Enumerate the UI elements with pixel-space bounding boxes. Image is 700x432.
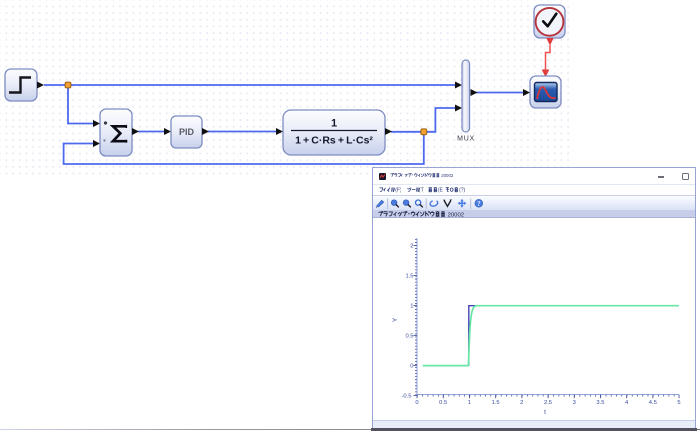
wire: summer output to PID input	[138, 131, 165, 133]
icon: zoom out	[403, 199, 410, 206]
menu bar	[373, 185, 695, 196]
svg-text:3.5: 3.5	[596, 400, 604, 406]
red event wire clock to scope	[546, 45, 551, 70]
step source block STEP_FUNCTION	[5, 69, 37, 101]
maximize	[682, 173, 689, 180]
svg-text:Y: Y	[392, 317, 399, 322]
x axis	[417, 394, 679, 396]
svg-text:0: 0	[410, 364, 413, 370]
svg-text:3: 3	[573, 400, 576, 406]
menu fairu(F)	[379, 187, 401, 195]
bottom edge lines	[0, 429, 700, 430]
svg-text:1: 1	[468, 400, 471, 406]
summer block SUMMATION	[93, 120, 100, 127]
green response curve	[423, 306, 679, 366]
icon: edit/pen	[376, 200, 384, 207]
svg-text:2.5: 2.5	[544, 400, 552, 406]
svg-text:1.5: 1.5	[492, 400, 500, 406]
svg-text:5: 5	[677, 400, 680, 406]
scilab graphic window icon	[379, 173, 386, 180]
junction A	[65, 82, 71, 88]
title bar	[373, 168, 695, 185]
clock output port arrow (red, down)	[546, 38, 553, 46]
scope block CSCOPE	[523, 89, 530, 96]
title text: guraffikku window bangou 20002	[390, 173, 456, 180]
MUX block	[455, 82, 462, 89]
svg-text:PID: PID	[179, 127, 195, 137]
icon: zoom in	[391, 199, 398, 206]
svg-text:-0.5: -0.5	[402, 394, 412, 400]
svg-text:1.5: 1.5	[405, 274, 413, 280]
minimize	[658, 176, 664, 178]
svg-text:2: 2	[520, 400, 523, 406]
wire: feedback junction B to summer input 2	[64, 132, 424, 164]
sub header bar	[373, 210, 695, 219]
svg-text:4: 4	[625, 400, 629, 406]
PID block	[164, 128, 171, 135]
svg-text:2: 2	[410, 244, 413, 250]
wire: plant output to junction B	[391, 131, 424, 133]
svg-text:1: 1	[410, 304, 413, 310]
graphic window	[372, 167, 696, 428]
icon: 2d/3d V tool	[443, 199, 451, 206]
clock block SampleCLK	[534, 5, 565, 38]
toolbar	[373, 196, 695, 210]
axis tick labels	[402, 244, 414, 400]
svg-text:0.5: 0.5	[439, 400, 447, 406]
svg-text:t: t	[544, 409, 546, 416]
xcos canvas dotted background	[0, 0, 572, 176]
svg-text:MUX: MUX	[457, 136, 475, 143]
svg-text:1 + C·Rs + L·Cs²: 1 + C·Rs + L·Cs²	[295, 135, 373, 147]
menu sonota(?)	[445, 187, 467, 195]
icon: pan cross	[458, 198, 467, 207]
wire: step output to junction A and on to MUX input 1	[44, 84, 455, 86]
block diagram	[0, 0, 700, 200]
toolbar separators	[388, 198, 471, 209]
junction B	[421, 129, 427, 135]
icon: help	[475, 199, 483, 208]
svg-text:0: 0	[415, 400, 418, 406]
wire: MUX output to scope input	[476, 92, 524, 94]
icon: zoom area	[416, 200, 423, 207]
wire: PID output to plant input	[208, 131, 277, 133]
plant transfer-function block 1/(1+C*Rs+L*Cs^2)	[276, 128, 283, 135]
svg-text:4.5: 4.5	[649, 400, 657, 406]
svg-text:0.5: 0.5	[405, 334, 413, 340]
menu tsuru(T)	[407, 187, 424, 195]
icon: rotate ellipse	[429, 199, 438, 207]
wire: junction A down and right into summer input 1	[68, 85, 94, 124]
svg-text:1: 1	[331, 118, 337, 130]
step output port arrow	[37, 82, 44, 89]
status bar	[373, 420, 695, 430]
wire: junction B up to MUX input 2	[424, 108, 455, 132]
menu henshuu(E)	[428, 187, 443, 195]
plot area	[373, 168, 697, 427]
blue step reference curve	[469, 306, 679, 366]
y axis	[416, 238, 418, 395]
